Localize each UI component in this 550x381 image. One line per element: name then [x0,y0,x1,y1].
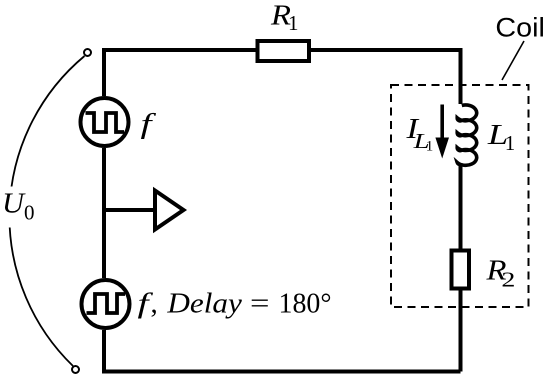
svg-text:180°: 180° [279,288,332,320]
svg-text:1: 1 [288,11,299,35]
wire coil to R2 [459,163,463,249]
wire R2 to bottom-right corner [459,291,463,372]
trigger stub wire [104,208,153,212]
current arrow I_L1 [440,105,444,141]
resistor R2 [452,251,470,289]
Coil leader line [502,41,524,80]
buffer triangle [155,191,184,230]
svg-text:Coil: Coil [495,13,545,43]
svg-text:1: 1 [505,131,516,155]
U0 label backing [1,187,38,228]
svg-text:=: = [250,288,270,320]
resistor R1 [258,41,310,61]
svg-text:Delay: Delay [166,288,242,320]
svg-text:,: , [151,288,158,320]
U0 brace arc [9,56,84,366]
source V1 (square-wave, f) [81,98,129,146]
svg-text:2: 2 [501,268,515,292]
wire bottom-left corner [104,330,461,372]
inductor L1 [457,105,477,165]
waveform glyph V2 [87,294,126,313]
source V2 (square-wave, f delay 180) [82,280,130,328]
svg-text:U: U [2,188,26,220]
svg-text:1: 1 [426,139,434,155]
terminal top [84,49,91,56]
waveform glyph V1 [86,113,125,132]
wire top-left corner to R1 [104,50,256,96]
coil dashed box [391,85,529,307]
svg-text:0: 0 [24,201,35,225]
terminal bottom [72,366,79,373]
wire R1 to top-right corner down to coil [311,50,461,104]
wire left vertical between sources [102,148,106,278]
